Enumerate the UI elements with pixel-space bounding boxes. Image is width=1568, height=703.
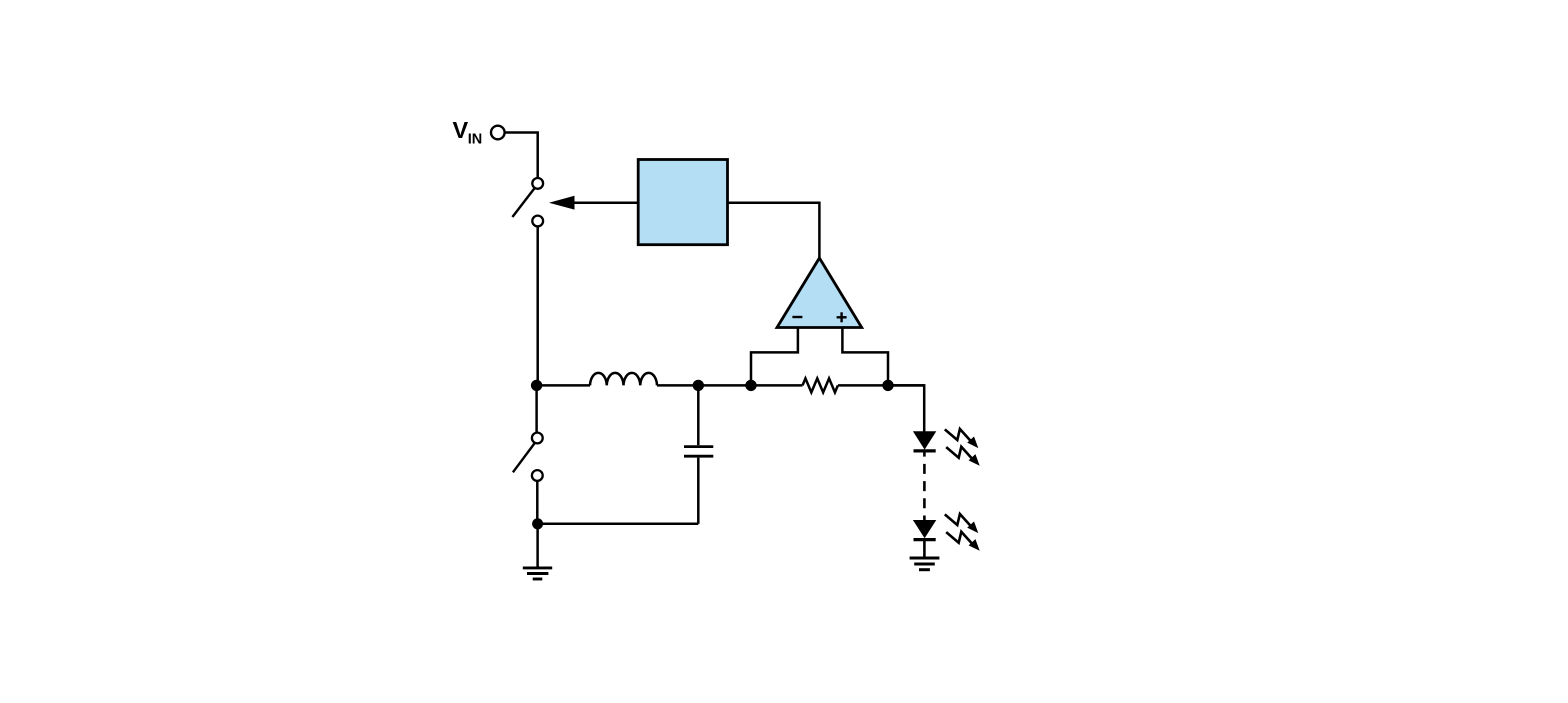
capacitor C1 [684, 385, 713, 523]
op-amp U2 [777, 258, 862, 328]
terminal VIN [491, 126, 505, 140]
node junction dot non-inverting [882, 380, 893, 391]
control arrow from block to switch [549, 196, 638, 210]
wire op-amp non-inverting input [842, 328, 888, 386]
wire block to op-amp output [728, 203, 820, 258]
wire rail segment middle [657, 384, 803, 387]
light arrow D1 a [945, 429, 982, 451]
wire op-amp inverting input [751, 328, 798, 386]
block U1 controller [638, 160, 727, 245]
wire bottom return [538, 523, 699, 526]
switch S1 [512, 178, 543, 226]
wire VIN terminal to switch [505, 133, 538, 178]
wire bottom node to ground [536, 524, 539, 567]
LED D2 [913, 520, 936, 557]
light arrow D2 a [945, 514, 982, 536]
light arrow D1 b [946, 447, 983, 469]
ground LED [910, 558, 940, 570]
resistor R1 [803, 378, 838, 392]
node junction dot inverting [745, 380, 756, 391]
wire switch to rail [536, 227, 539, 386]
wire switch S2 to bottom node [536, 481, 539, 524]
wire rail segment right [838, 384, 924, 387]
wire rail to LED string [888, 385, 924, 431]
light arrow D2 b [946, 532, 983, 554]
inductor L1 [590, 373, 657, 386]
node junction dot bottom [532, 518, 543, 529]
wire rail segment left [537, 384, 590, 387]
LED D1 [913, 431, 936, 451]
wire stub below LED D1 [923, 451, 926, 457]
node junction dot left [531, 380, 542, 391]
wire rail to switch S2 [535, 385, 538, 432]
switch S2 [513, 433, 543, 481]
ground left [523, 568, 552, 579]
wire dashed LED string [923, 464, 926, 520]
node junction dot capacitor [693, 380, 704, 391]
